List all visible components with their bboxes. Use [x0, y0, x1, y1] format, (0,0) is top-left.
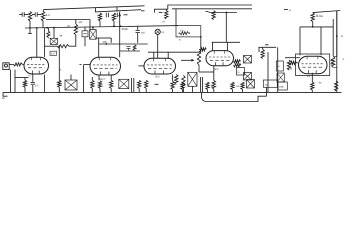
- resistor R22: [197, 51, 200, 65]
- resistor R7: [165, 11, 168, 20]
- node N2: [336, 35, 338, 37]
- wire v4k: [213, 66, 215, 81]
- wire L4: [172, 8, 252, 10]
- wire dash6: [331, 60, 334, 62]
- box XB1: [244, 56, 252, 64]
- svg-text:6C5: 6C5: [155, 76, 160, 79]
- wire can stub: [70, 75, 72, 81]
- svg-text:a.c.: a.c.: [46, 13, 51, 17]
- pot P2: [90, 30, 97, 40]
- wire col2: [277, 47, 279, 92]
- svg-text:6SC7: 6SC7: [99, 78, 106, 81]
- svg-text:2.5: 2.5: [35, 85, 39, 88]
- wire v3 grid: [139, 65, 145, 67]
- wire ground bus: [3, 91, 342, 93]
- svg-text:w: w: [179, 39, 181, 42]
- shield V5: [296, 54, 330, 76]
- wire arrow: [181, 59, 194, 61]
- resistor R25: [234, 64, 242, 67]
- box XB3: [277, 73, 284, 82]
- resistor R29: [332, 57, 335, 68]
- wire jack gnd: [10, 70, 12, 93]
- resistor R26: [261, 50, 264, 59]
- resistor R2: [28, 12, 31, 22]
- resistor R13: [91, 80, 94, 88]
- resistor R32: [311, 82, 314, 90]
- svg-text:ow: ow: [236, 85, 239, 88]
- svg-text:w2: w2: [79, 20, 83, 24]
- capacitor C3: [105, 13, 107, 18]
- wire L3: [155, 5, 253, 13]
- wire sec: [332, 19, 334, 56]
- capacitor C5: [82, 31, 88, 37]
- resistor R16: [138, 80, 141, 88]
- resistor R35: [231, 82, 234, 90]
- label V1: [50, 51, 57, 55]
- wire OT prim: [300, 26, 333, 28]
- capacitor C2: [34, 12, 36, 17]
- wire W2: [46, 19, 90, 21]
- tube V5: [299, 56, 328, 74]
- resistor R15: [110, 80, 113, 88]
- wire k2: [58, 46, 60, 80]
- neon NE1: [155, 29, 160, 34]
- tube V4: [206, 51, 234, 66]
- wire OT top: [313, 11, 341, 13]
- resistor R18: [171, 81, 174, 89]
- wire col1: [267, 52, 269, 92]
- capacitor C7: [32, 74, 34, 82]
- resistor R24: [234, 60, 241, 63]
- wire v2k: [98, 75, 100, 80]
- wire T4 grid: [212, 41, 240, 43]
- wire dash3: [284, 9, 288, 11]
- resistor VR1: [47, 31, 50, 38]
- box BX4: [278, 82, 287, 90]
- resistor R31: [335, 81, 338, 91]
- wire plate rail V2: [98, 38, 100, 57]
- divider box PS1: [176, 26, 201, 37]
- resistor R34: [206, 82, 209, 90]
- svg-text:6J7: 6J7: [51, 53, 56, 56]
- input jack J1: [3, 63, 9, 70]
- svg-text:3-: 3-: [343, 58, 345, 61]
- wire v3 plate: [148, 51, 201, 53]
- wire grid5: [285, 57, 300, 59]
- ground GND1: [3, 92, 8, 96]
- wire stub: [29, 28, 31, 34]
- svg-text:36F: 36F: [103, 41, 108, 44]
- capacitor C1: [21, 12, 23, 17]
- resistor R1: [14, 63, 23, 66]
- wire dash: [124, 14, 128, 16]
- resistor R20: [182, 75, 185, 88]
- wire pi out: [259, 46, 277, 48]
- tube V1: [24, 57, 49, 74]
- wire feedback loop: [202, 92, 267, 101]
- wire dash2: [141, 10, 145, 12]
- resistor R9: [212, 11, 215, 20]
- wire PS drop: [200, 37, 202, 52]
- resistor R10: [57, 45, 69, 48]
- resistor R6: [112, 13, 115, 21]
- wire plate drop: [119, 12, 121, 27]
- wire v5 k: [311, 73, 313, 82]
- resistor R3: [41, 11, 44, 21]
- resistor R14: [98, 81, 101, 89]
- svg-text:wf: wf: [60, 34, 63, 38]
- wire dash4: [206, 10, 209, 12]
- svg-text:WW: WW: [288, 68, 293, 71]
- svg-text:wt: wt: [277, 65, 280, 68]
- resistor R38: [133, 45, 136, 51]
- resistor R17: [145, 80, 148, 88]
- wire mid rail: [25, 26, 178, 28]
- wire right col: [336, 11, 338, 93]
- resistor R27: [287, 60, 290, 70]
- box BX1: [237, 68, 245, 76]
- wire b1 bottom: [120, 50, 140, 52]
- resistor R11: [23, 80, 26, 87]
- node N1: [113, 25, 115, 27]
- resistor R12: [58, 80, 61, 87]
- svg-text:6F6: 6F6: [214, 68, 219, 71]
- wire cath1: [15, 77, 29, 79]
- svg-text:swl: swl: [141, 31, 145, 34]
- wire fb drop: [266, 87, 268, 96]
- capacitor C9: [200, 77, 202, 92]
- wire dash5: [155, 83, 159, 85]
- resistor R4: [74, 24, 77, 35]
- tube V2: [90, 57, 121, 75]
- box XB2: [244, 73, 252, 81]
- pot P1: [50, 38, 57, 44]
- wire B+ bus L1: [44, 6, 145, 10]
- svg-text:360k: 360k: [122, 27, 129, 31]
- svg-text:100k: 100k: [279, 86, 285, 89]
- svg-text:1M: 1M: [67, 25, 70, 28]
- resistor R21: [200, 48, 207, 51]
- node dots: [29, 27, 31, 29]
- wire jog: [96, 37, 111, 39]
- can FC2: [119, 79, 129, 88]
- wire anode drop: [44, 28, 46, 57]
- svg-text:1 a: 1 a: [307, 75, 311, 78]
- jack SPK1: [188, 72, 197, 86]
- wire long drop: [175, 9, 177, 26]
- wire V1 plate: [36, 28, 38, 57]
- wire v2 grid: [84, 64, 91, 66]
- resistor R28: [290, 61, 297, 64]
- resistor R36: [241, 82, 244, 90]
- capacitor C8: [131, 78, 133, 92]
- tube V3: [144, 58, 176, 74]
- capacitor C4: [116, 13, 118, 18]
- resistor R8: [311, 13, 314, 22]
- resistor R37: [181, 83, 184, 90]
- box BX2: [276, 61, 283, 71]
- capacitor C6: [137, 26, 139, 30]
- box XB5: [247, 80, 255, 89]
- resistor R19: [175, 75, 178, 85]
- svg-text:14k: 14k: [265, 83, 270, 86]
- wire filter top: [95, 10, 141, 12]
- resistor R23: [212, 81, 215, 90]
- capacitor C10: [127, 46, 131, 48]
- wire PI top: [209, 12, 238, 14]
- resistor R5: [98, 13, 101, 21]
- can FC1: [65, 80, 77, 90]
- svg-text:w: w: [211, 85, 213, 88]
- box BX3: [263, 80, 277, 87]
- svg-text:B-6a: B-6a: [316, 14, 323, 18]
- svg-text:w: w: [289, 9, 291, 12]
